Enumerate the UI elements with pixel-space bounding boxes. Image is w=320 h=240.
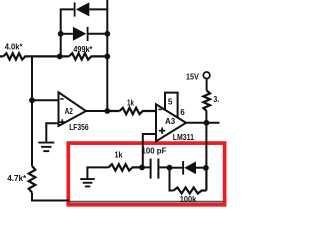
label A2	[65, 106, 73, 116]
label 100k	[180, 194, 197, 204]
resistor 1k between A2 and A3	[107, 108, 156, 114]
node: middle diode line left end	[58, 31, 64, 37]
wire: A2 noninverting input to ground	[46, 123, 58, 141]
label 1k top	[127, 98, 134, 108]
node: 1k / 100pF / A3 noninverting input	[139, 165, 145, 171]
node: 499k line meets right rail	[104, 54, 110, 60]
svg-text:LF356: LF356	[69, 122, 89, 132]
svg-text:LM311: LM311	[173, 132, 194, 142]
label 1k bottom	[115, 150, 123, 160]
wire: middle diode line y=33.8	[61, 33, 108, 35]
label A3	[165, 116, 175, 126]
comparator A3 triangle	[156, 104, 186, 141]
wire: A3 noninverting input drop into red box	[143, 134, 156, 167]
label 4.0k*	[5, 42, 23, 52]
label 4.7k*	[7, 173, 27, 183]
wire: left rail down to 4.7k	[31, 100, 33, 166]
svg-text:5: 5	[168, 96, 173, 106]
red highlight box	[68, 143, 224, 205]
svg-text:100k: 100k	[180, 194, 197, 204]
label LM311	[173, 132, 194, 142]
minus sign A2	[60, 98, 63, 100]
wire: 15V stem	[206, 79, 208, 91]
wire: top line of feedback box y=9.4	[61, 9, 108, 33]
node: summing line meets left rail of diode box	[57, 54, 63, 60]
wire: right rail from image top down to A2 output junction	[106, 0, 108, 111]
wire: D3 cathode side to right rail	[195, 167, 206, 169]
label pin 5	[168, 96, 173, 106]
label 499k*	[73, 44, 93, 54]
op-amp A2 triangle	[59, 92, 87, 126]
minus sign A3	[158, 109, 161, 111]
capacitor C 100 pF plates	[142, 159, 170, 179]
node: A3 output junction	[204, 120, 210, 126]
node: 100pF / diode / 100k	[167, 165, 173, 171]
resistor 3. pull-up	[203, 91, 210, 112]
wire: 100k parallel path	[170, 168, 174, 191]
label 15V	[186, 71, 199, 81]
label pin 6	[180, 107, 185, 117]
wire: A3 output to junction and stub	[186, 122, 220, 124]
node: A2 inverting input junction	[29, 97, 35, 103]
label LF356	[69, 122, 89, 132]
svg-text:499k*: 499k*	[73, 44, 93, 54]
svg-text:A2: A2	[65, 106, 73, 116]
resistor 100k	[174, 168, 207, 194]
svg-text:4.7k*: 4.7k*	[7, 173, 27, 183]
gray rule segment above red bottom edge	[70, 201, 224, 203]
wire: summing node drop to A2 inverting input	[32, 56, 59, 100]
wire: A3 balance pins 5-6 loop	[165, 93, 178, 118]
svg-text:4.0k*: 4.0k*	[5, 42, 23, 52]
svg-text:6: 6	[180, 107, 185, 117]
diode D1 top pointing left	[74, 2, 90, 16]
resistor 499k feedback	[60, 53, 108, 59]
wire: pull-up to output junction and down into red box	[205, 111, 207, 168]
svg-text:1k: 1k	[127, 98, 134, 108]
wire: 4.7k return to red box edge	[32, 193, 69, 201]
node: diode cathode-side rail junction	[203, 165, 209, 171]
ground bars inside red box	[80, 178, 94, 187]
wire: cap node to diode D3	[170, 167, 183, 169]
svg-text:15V: 15V	[186, 71, 199, 81]
resistor 1k inside red box	[109, 164, 143, 170]
plus sign A2	[60, 119, 66, 125]
diode D3 bottom pointing left	[182, 161, 196, 175]
svg-text:A3: A3	[165, 116, 175, 126]
svg-text:1k: 1k	[115, 150, 123, 160]
wire: A2 output to junction	[86, 110, 107, 112]
ground bars under A2	[38, 142, 54, 152]
diode D2 middle pointing right	[73, 27, 89, 41]
svg-text:3.: 3.	[213, 94, 219, 104]
resistor 4.0k input	[0, 53, 60, 59]
node: middle diode line right end	[104, 31, 110, 37]
15V terminal circle	[203, 72, 210, 79]
svg-text:100 pF: 100 pF	[142, 146, 167, 156]
label 100 pF	[142, 146, 167, 156]
label 3.	[213, 94, 219, 104]
wire: left rail of feedback box	[60, 34, 62, 57]
plus sign A3	[159, 127, 165, 133]
ground symbol inside red box	[87, 167, 108, 178]
node: A2 output junction	[104, 108, 110, 114]
resistor 4.7k	[29, 166, 36, 193]
